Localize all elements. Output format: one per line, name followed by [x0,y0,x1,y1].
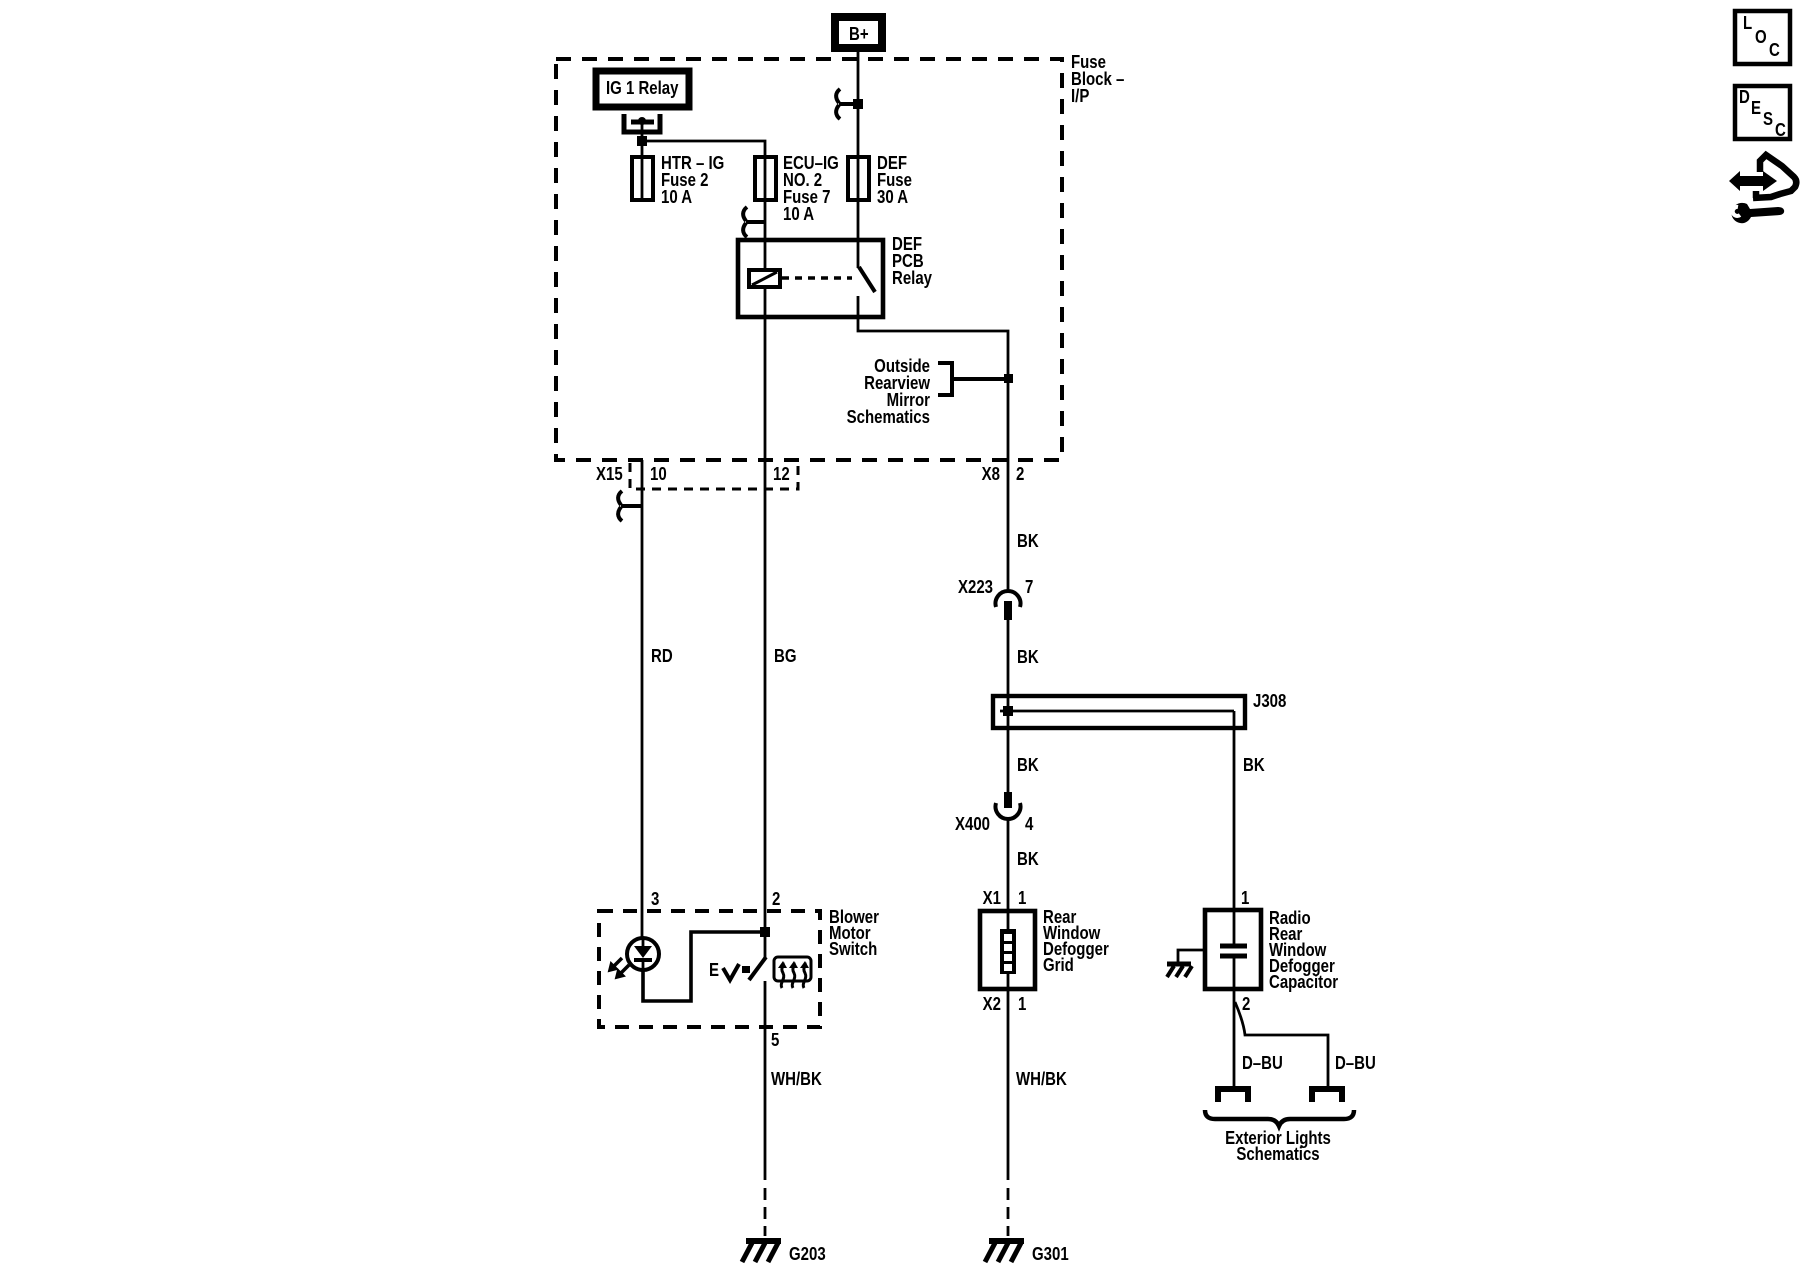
svg-text:2: 2 [772,889,780,910]
dashed wire to G301 [1007,1188,1010,1236]
connector X15 dashed box pins 10/12 [630,463,798,489]
relay actuating link dashed [782,276,852,280]
svg-text:7: 7 [1025,577,1033,598]
wire BK right branch: J308 down to capacitor [1233,711,1236,910]
svg-text:1: 1 [1241,888,1249,909]
svg-text:Switch: Switch [829,939,877,960]
svg-text:E: E [709,960,719,981]
wire B+ down to DEF fuse [857,52,860,158]
svg-text:D: D [1739,87,1750,108]
svg-text:S: S [1763,109,1773,130]
svg-text:BK: BK [1017,647,1039,668]
svg-text:2: 2 [1016,464,1024,485]
connector X400 pin 4 [955,792,1034,835]
wire junction down to switch blade [764,932,767,958]
blower switch blade [749,957,766,980]
capacitor radio rear window defogger box [1205,910,1261,989]
svg-text:X400: X400 [955,814,990,835]
outside rearview mirror stub bracket [938,363,1008,395]
svg-text:Grid: Grid [1043,955,1074,976]
switch internal wiring LED to junction [643,932,765,1001]
svg-text:C: C [1769,40,1780,61]
wire relay switch to X8 pin 2 [858,296,1008,460]
label HTR-IG fuse [661,153,724,208]
svg-text:I/P: I/P [1071,86,1089,107]
svg-text:BK: BK [1017,755,1039,776]
svg-text:D–BU: D–BU [1335,1053,1376,1074]
capacitor case ground [1167,950,1205,977]
label Outside Rearview Mirror Schematics [847,356,931,428]
svg-text:Schematics: Schematics [1236,1144,1319,1165]
ground G203 [742,1241,781,1262]
svg-text:X223: X223 [958,577,993,598]
wire RD: pin 10 down to blower switch pin 3 [641,460,644,938]
svg-text:BK: BK [1017,531,1039,552]
wire WH/BK pin5 to G203 [764,1027,767,1180]
label Rear Window Defogger Grid [1043,907,1109,976]
terminal left [1218,1089,1248,1102]
svg-text:RD: RD [651,646,673,667]
wire DEF fuse down to relay switch [857,200,860,268]
svg-text:X1: X1 [983,888,1001,909]
switch check mark [723,964,739,980]
LED indicator lamp [627,938,659,971]
svg-text:O: O [1755,27,1767,48]
svg-text:3: 3 [651,889,659,910]
connector X223 pin 7 [958,577,1033,620]
DESC button [1735,86,1790,141]
fuse block tap clip at ECU-IG wire [743,207,765,237]
svg-text:Schematics: Schematics [847,407,930,428]
LED light arrows [609,958,629,978]
svg-text:Relay: Relay [892,268,933,289]
wire BG: pin 12 down to blower switch pin 2 [764,460,767,932]
label Radio Rear Window Defogger Capacitor [1269,908,1339,993]
svg-text:J308: J308 [1253,691,1286,712]
svg-text:BK: BK [1017,849,1039,870]
label Exterior Lights Schematics [1225,1128,1331,1165]
splice pack J308 [993,696,1245,728]
svg-text:X15: X15 [596,464,623,485]
label Blower Motor Switch [829,907,879,960]
svg-text:12: 12 [773,464,790,485]
svg-text:G203: G203 [789,1244,826,1265]
wire BK: X400 to grid X1 [1007,817,1010,911]
svg-text:X2: X2 [983,994,1001,1015]
fuse HTR-IG Fuse 2 10A [632,157,653,200]
wire ECU-IG fuse down into relay [764,200,767,240]
wire D-BU right branch [1235,1002,1328,1088]
fuse ECU-IG NO.2 Fuse 7 10A [755,157,776,200]
svg-text:2: 2 [1242,994,1250,1015]
label DEF PCB Relay [892,234,933,289]
svg-text:10: 10 [650,464,667,485]
node mirror tap junction [1004,374,1013,383]
svg-text:10 A: 10 A [783,204,814,225]
clip at X15 pin 10 [618,491,641,521]
relay coil (through which ECU-IG wire passes) [749,240,780,317]
dashed wire to G203 [764,1188,767,1236]
wire blade down to pin 5 [764,981,767,1027]
fuse DEF Fuse 30A [848,157,869,200]
wire BK: X223 to J308 [1007,620,1010,696]
battery feed B+ box [835,17,882,48]
svg-text:BG: BG [774,646,796,667]
node junction IG1 feed [637,136,647,146]
svg-text:4: 4 [1025,814,1034,835]
vehicle navigation icon (arrow, car outline, wrench) [1729,155,1796,223]
label ECU-IG fuse [783,153,839,225]
defogger indicator icon [774,957,811,988]
svg-text:E: E [1751,98,1761,119]
relay switch blade [859,267,875,292]
LOC button [1735,11,1790,64]
svg-text:C: C [1775,120,1786,141]
svg-text:BK: BK [1243,755,1265,776]
svg-text:B+: B+ [849,24,869,45]
wire IG1 relay terminal down to junction [641,122,644,158]
brace exterior lights [1205,1110,1354,1126]
Fuse Block - I/P dashed box [556,59,1062,460]
svg-text:X8: X8 [982,464,1000,485]
wire D-BU left: capacitor pin2 to terminal [1233,989,1236,1088]
blower motor switch dashed box [599,911,820,1027]
svg-text:L: L [1743,13,1752,34]
svg-text:Capacitor: Capacitor [1269,972,1339,993]
svg-text:5: 5 [771,1030,779,1051]
fuse block tap clip at B+ wire [836,89,863,119]
svg-text:IG 1 Relay: IG 1 Relay [606,78,679,99]
relay DEF PCB Relay box [738,240,883,317]
wire junction to ECU-IG fuse [642,141,765,158]
svg-text:D–BU: D–BU [1242,1053,1283,1074]
label Fuse Block - I/P [1071,52,1124,107]
switch fixed contact [742,966,750,973]
svg-text:WH/BK: WH/BK [771,1069,822,1090]
wire BK: X8 pin2 down to X223 [1007,460,1010,593]
wire WH/BK grid X2 to G301 [1007,989,1010,1180]
wire BG relay to pin 12 [764,317,767,460]
ground G301 [985,1241,1024,1262]
label DEF fuse [877,153,912,208]
terminal right [1312,1089,1342,1102]
svg-text:1: 1 [1018,994,1026,1015]
svg-text:WH/BK: WH/BK [1016,1069,1067,1090]
svg-text:G301: G301 [1032,1244,1069,1265]
svg-text:1: 1 [1018,888,1026,909]
node junction at blower pin 2 [760,927,770,937]
IG1 relay output terminal bracket [624,114,660,132]
IG 1 Relay box [596,71,689,107]
svg-text:10 A: 10 A [661,187,692,208]
svg-text:30 A: 30 A [877,187,908,208]
wire BK: J308 to X400 [1007,728,1010,793]
rear window defogger grid box [980,911,1035,989]
